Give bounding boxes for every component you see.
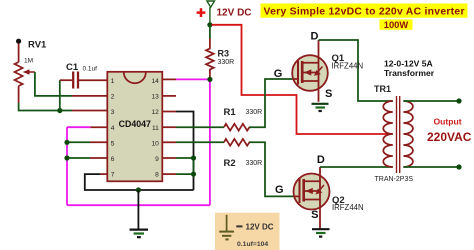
svg-text:330R: 330R [246, 160, 263, 167]
wire R2 to Q2 gate [250, 142, 294, 196]
wire pin6 green segment [67, 157, 90, 159]
wire secondary top output [403, 100, 459, 102]
node pin5 junction dot [64, 140, 69, 145]
node RV1 top dot [16, 39, 21, 44]
transistor Q2 IRFZ44N body [294, 174, 330, 210]
ground under Q2 [312, 229, 330, 236]
node ground junction dot [136, 187, 141, 192]
svg-text:8: 8 [155, 172, 159, 179]
wire pin10 red stub [162, 141, 176, 143]
svg-text:0.1uf: 0.1uf [83, 66, 98, 73]
svg-text:2: 2 [111, 94, 115, 101]
svg-text:220VAC: 220VAC [427, 130, 472, 144]
note dash [236, 225, 242, 227]
svg-text:IRFZ44N: IRFZ44N [332, 62, 364, 71]
title highlight line 2 [380, 19, 413, 29]
svg-text:0.1uf=104: 0.1uf=104 [237, 241, 268, 248]
wire pin12 red stub [162, 111, 176, 113]
svg-text:TR1: TR1 [374, 84, 391, 94]
node pin9 junction dot [191, 155, 196, 160]
svg-text:IRFZ44N: IRFZ44N [332, 203, 364, 212]
wire wiper to pin2 [35, 72, 72, 96]
svg-text:12V DC: 12V DC [217, 7, 252, 18]
transformer TR1 core [397, 96, 400, 173]
svg-text:1: 1 [111, 78, 115, 85]
transistor Q2 internals [294, 179, 324, 204]
wire Q2 drain-source vertical [319, 167, 321, 229]
IC notch [124, 72, 146, 83]
wire pin14 red stub [162, 78, 176, 80]
wire pin12 black segment [176, 112, 194, 191]
wire pin4 magenta segment [67, 126, 90, 128]
svg-text:9: 9 [155, 156, 159, 163]
svg-text:Output: Output [434, 116, 462, 126]
wire VDD magenta bottom [67, 204, 210, 206]
wire pin6 red segment [90, 157, 107, 159]
power terminal +12V [207, 1, 215, 25]
svg-text:CD4047: CD4047 [119, 119, 151, 129]
plus sign [197, 8, 206, 17]
wire pin10 to R2 green [176, 141, 224, 143]
note ground symbol [219, 215, 234, 240]
node output bottom dot [456, 164, 461, 169]
svg-text:5: 5 [111, 140, 115, 147]
ground under Q1 [312, 104, 329, 111]
wire pins 9-8 green vertical [193, 158, 195, 174]
svg-text:Transformer: Transformer [384, 68, 435, 78]
op-amp U1 CD4047 body [107, 72, 162, 182]
wire Q2 drain to transformer bottom [320, 166, 393, 168]
svg-text:330R: 330R [218, 59, 235, 66]
svg-text:G: G [275, 184, 284, 196]
svg-text:1M: 1M [24, 58, 33, 65]
wire pin9 red stub [162, 157, 176, 159]
node C1/pin3 junction dot [57, 108, 62, 113]
title highlight line 1 [261, 4, 468, 18]
svg-text:100W: 100W [384, 19, 409, 30]
wire RV1 bottom to pin3 [19, 103, 72, 111]
wire VDD magenta left vertical [66, 127, 68, 205]
wire ground drop under IC [137, 190, 139, 230]
wire pin9 green segment [176, 157, 194, 159]
node output top dot [456, 98, 461, 103]
wire secondary bottom output [403, 166, 459, 168]
wire 12V node to R3 (green) [209, 25, 211, 39]
svg-text:S: S [311, 209, 318, 221]
svg-text:D: D [317, 154, 325, 166]
transformer TR1 primary winding [383, 101, 393, 167]
wire pin4 red segment [90, 126, 107, 128]
svg-text:D: D [311, 31, 319, 43]
svg-text:11: 11 [152, 125, 159, 132]
svg-text:3: 3 [111, 109, 115, 116]
wire C1 left plate down to pin3 net [59, 80, 61, 110]
pin 13 stub [162, 95, 176, 97]
resistor R2 330R [224, 139, 250, 146]
svg-text:12-0-12V 5A: 12-0-12V 5A [384, 59, 433, 69]
svg-text:330R: 330R [246, 109, 263, 116]
node R3/pin14 junction dot [207, 77, 212, 82]
wire pin11 red stub [162, 126, 176, 128]
svg-text:10: 10 [151, 140, 159, 147]
transformer TR1 secondary winding [403, 101, 413, 167]
node pin8 junction dot [191, 172, 196, 177]
svg-text:12V DC: 12V DC [246, 223, 274, 232]
wire pin7 black segment [85, 174, 194, 190]
wire Q1 drain-source vertical [318, 40, 320, 102]
wire Q1 drain to transformer top [319, 40, 393, 101]
svg-text:4: 4 [111, 125, 115, 132]
svg-text:7: 7 [111, 172, 115, 179]
resistor R1 330R [224, 124, 250, 131]
wire pin8 green segment [176, 173, 194, 175]
svg-text:R2: R2 [224, 158, 236, 169]
wire pin8 red stub [162, 173, 176, 175]
svg-text:12: 12 [151, 109, 159, 116]
capacitor C1 0.1uf [60, 72, 108, 89]
note box background [215, 213, 280, 250]
wire pin2 red segment [72, 95, 107, 97]
transistor Q1 internals [292, 61, 322, 85]
wire R1 to Q1 gate [250, 79, 293, 127]
transistor Q1 IRFZ44N body [292, 55, 328, 91]
svg-text:R3: R3 [218, 49, 230, 59]
wire pin7 red stub [100, 173, 107, 175]
wire pin5 red segment [90, 141, 107, 143]
svg-text:RV1: RV1 [28, 40, 47, 51]
wire +12V to transformer (bright red) [212, 25, 393, 134]
resistor R3 330R [206, 39, 214, 80]
node 12V junction dot [207, 22, 212, 27]
wire pin14 magenta segment [176, 78, 210, 80]
svg-text:14: 14 [151, 78, 159, 85]
wire pin11 to R1 green [176, 126, 224, 128]
wire pin3 red segment [72, 110, 107, 112]
svg-text:S: S [325, 88, 332, 100]
potentiometer RV1 body [15, 44, 23, 104]
svg-text:TRAN-2P3S: TRAN-2P3S [375, 176, 414, 183]
svg-text:C1: C1 [66, 62, 79, 73]
ground symbol under IC [130, 230, 148, 238]
svg-text:6: 6 [111, 156, 115, 163]
svg-text:R1: R1 [224, 107, 237, 118]
svg-text:13: 13 [151, 94, 159, 101]
node pin6 junction dot [64, 155, 69, 160]
potentiometer RV1 wiper arrow [23, 69, 30, 75]
wire pin5 green segment [67, 141, 90, 143]
wire VDD magenta vertical [209, 79, 211, 205]
svg-text:Very Simple 12vDC to 220v AC i: Very Simple 12vDC to 220v AC inverter [264, 6, 465, 17]
svg-text:G: G [274, 68, 283, 80]
